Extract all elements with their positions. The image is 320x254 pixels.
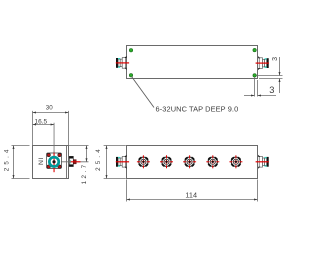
- svg-text:6-32UNC TAP DEEP 9.0: 6-32UNC TAP DEEP 9.0: [156, 105, 239, 114]
- connector J1 side view (top view left): [116, 56, 129, 70]
- leader line for tapped holes: [132, 77, 155, 108]
- tapped hole bottom-right: [253, 74, 256, 77]
- svg-text:25.4: 25.4: [3, 146, 10, 171]
- dimension 12.7 extension lines: [69, 145, 89, 147]
- dimension 114 extension lines: [126, 180, 128, 202]
- dimension 114: [127, 190, 258, 200]
- tapped hole top-right: [253, 48, 256, 51]
- output port 2: [160, 155, 173, 168]
- side connector on end view: [69, 156, 80, 166]
- connector J4 side view (front view right): [256, 155, 269, 169]
- end view centerline horizontal: [47, 161, 89, 163]
- svg-text:IN: IN: [37, 158, 44, 166]
- svg-text:12.7: 12.7: [81, 162, 88, 184]
- dimension 3 horizontal extension lines: [254, 77, 256, 97]
- svg-text:114: 114: [185, 190, 197, 199]
- center pin: [52, 160, 55, 163]
- flange screw hole top-right: [58, 153, 61, 156]
- dimension 16.5 extension line: [53, 123, 55, 153]
- dimension 3 vertical: [272, 57, 281, 93]
- dimension 3 horizontal: [244, 85, 276, 97]
- output port 5: [229, 155, 242, 168]
- svg-text:3: 3: [272, 57, 279, 61]
- connector J2 side view (top view right): [256, 56, 269, 70]
- svg-text:3: 3: [269, 85, 274, 95]
- top view body outline: [127, 46, 258, 79]
- svg-text:30: 30: [46, 105, 53, 112]
- tapped hole bottom-left: [129, 74, 132, 77]
- output port 3: [183, 155, 196, 168]
- connector J3 side view (front view left): [116, 155, 129, 169]
- dimension 16.5: [33, 119, 55, 126]
- end view cover seam line: [66, 146, 68, 179]
- flange screw hole bottom-right: [58, 165, 61, 168]
- red crosshair vertical: [53, 152, 55, 173]
- output port 1: [137, 155, 150, 168]
- dimension 25.4 end view: [3, 146, 14, 179]
- dimension 30 extension lines: [32, 111, 34, 146]
- dielectric ring: [49, 157, 58, 166]
- dimension 12.7: [81, 146, 88, 185]
- tapped hole top-left: [129, 49, 132, 52]
- flange screw hole top-left: [47, 153, 50, 156]
- dimension 30: [33, 105, 69, 114]
- dimension 25.4 front view extension lines: [104, 145, 126, 147]
- dimension 25.4 front view: [95, 146, 108, 179]
- front view body outline: [127, 146, 258, 179]
- dimension 3 vertical extension lines: [257, 75, 283, 77]
- svg-text:16.5: 16.5: [34, 119, 47, 126]
- dimension 25.4 end view extension lines: [12, 145, 30, 147]
- output port 4: [206, 155, 219, 168]
- end view body outline: [33, 146, 69, 179]
- svg-text:25.4: 25.4: [95, 146, 102, 171]
- flange screw hole bottom-left: [47, 165, 50, 168]
- input connector flange: [47, 153, 62, 168]
